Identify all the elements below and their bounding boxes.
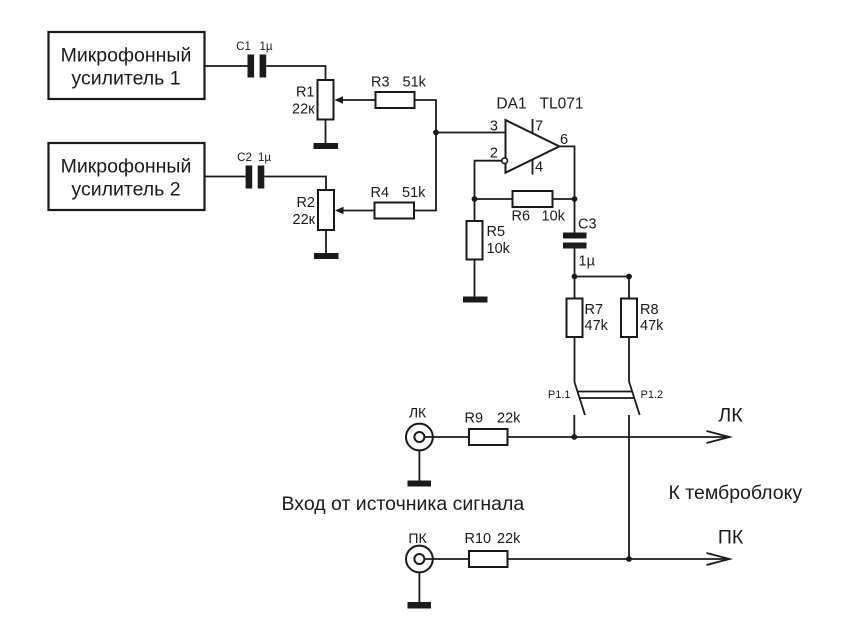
wire ЛК jack to R9 bbox=[424, 436, 469, 438]
svg-text:1µ: 1µ bbox=[579, 254, 596, 270]
op-amp U1 DA1 TL071 bbox=[490, 96, 584, 176]
svg-text:R10: R10 bbox=[465, 531, 492, 547]
wire R8 bottom to switch P1.2 bbox=[628, 337, 630, 382]
wire ПК jack to ground bbox=[418, 572, 420, 602]
svg-text:22k: 22k bbox=[497, 411, 521, 427]
svg-text:47k: 47k bbox=[640, 318, 664, 334]
wire R1 bottom to ground bbox=[325, 120, 327, 144]
capacitor C1 bbox=[236, 41, 273, 78]
svg-text:TL071: TL071 bbox=[540, 96, 584, 113]
svg-text:51k: 51k bbox=[402, 185, 426, 201]
svg-text:1µ: 1µ bbox=[259, 41, 272, 53]
node output junction bbox=[572, 196, 578, 202]
resistor R3 bbox=[371, 75, 427, 109]
wire R10 to ПК output line bbox=[508, 558, 728, 560]
svg-text:R2: R2 bbox=[296, 195, 315, 211]
resistor R5 bbox=[467, 221, 511, 260]
svg-text:22k: 22k bbox=[497, 531, 521, 547]
svg-text:2: 2 bbox=[490, 146, 498, 162]
svg-text:R4: R4 bbox=[371, 185, 390, 201]
svg-text:R6: R6 bbox=[512, 209, 531, 225]
connector ПК jack (RCA) bbox=[406, 530, 433, 572]
wire R9 to ЛК output line with node bbox=[508, 436, 728, 438]
wire R6 right to output node bbox=[553, 198, 575, 200]
svg-text:DA1: DA1 bbox=[496, 96, 526, 113]
svg-text:R1: R1 bbox=[296, 85, 315, 101]
resistor R10 bbox=[465, 531, 522, 567]
wire node down to R7 bbox=[574, 277, 576, 299]
switch mechanical coupling bbox=[578, 392, 635, 399]
svg-text:R7: R7 bbox=[585, 302, 604, 318]
svg-text:22к: 22к bbox=[292, 102, 315, 118]
svg-text:P1.2: P1.2 bbox=[641, 389, 664, 401]
svg-text:P1.1: P1.1 bbox=[548, 389, 571, 401]
resistor R6 bbox=[512, 191, 566, 225]
block: microphone amplifier 1 bbox=[49, 32, 205, 99]
wire node to R6 left bbox=[475, 198, 513, 200]
svg-text:R5: R5 bbox=[487, 224, 506, 240]
svg-text:51k: 51k bbox=[403, 75, 427, 91]
wire op-amp output pin 6 down to C3 bbox=[559, 146, 574, 232]
wire R7 bottom to switch P1.1 bbox=[574, 337, 576, 382]
wire node to R8 branch bbox=[575, 276, 630, 278]
block: microphone amplifier 2 bbox=[49, 143, 205, 210]
resistor R8 bbox=[621, 299, 664, 338]
svg-text:1µ: 1µ bbox=[258, 152, 271, 164]
arrow ПК output bbox=[707, 553, 730, 565]
wire pin 2 to feedback node bbox=[475, 161, 502, 199]
wire R1 wiper to R3 bbox=[341, 99, 376, 101]
svg-text:C3: C3 bbox=[578, 217, 597, 233]
potentiometer R1 bbox=[292, 80, 343, 120]
wire box2 to C2 bbox=[206, 176, 246, 178]
svg-text:22к: 22к bbox=[293, 212, 316, 228]
wire ЛК jack to ground bbox=[418, 450, 420, 481]
wire C2 to R2 top bbox=[264, 177, 326, 191]
svg-text:10k: 10k bbox=[542, 209, 566, 225]
svg-text:Вход от источника сигнала: Вход от источника сигнала bbox=[282, 493, 525, 515]
wire R2 wiper to R4 bbox=[342, 210, 375, 212]
node above R8 bbox=[626, 274, 632, 280]
svg-text:ПК: ПК bbox=[408, 530, 427, 546]
pin 4 stub bbox=[532, 160, 534, 175]
svg-text:C1: C1 bbox=[236, 41, 251, 53]
node below C3 bbox=[572, 274, 578, 280]
wire ПК jack to R10 bbox=[424, 558, 469, 560]
svg-text:ЛК: ЛК bbox=[409, 405, 427, 421]
capacitor C3 bbox=[563, 217, 597, 270]
wire feedback node down to R5 bbox=[474, 199, 476, 221]
wire switch P1.2 lower terminal down to PK line bbox=[628, 415, 630, 559]
node switch P1.2 to line bbox=[626, 556, 632, 562]
switch P1.2 bbox=[629, 382, 663, 416]
wire C1 to R1 top bbox=[266, 66, 325, 80]
ground below R1 bbox=[314, 143, 339, 149]
wire R5 bottom to ground bbox=[474, 260, 476, 297]
ground below ЛК jack bbox=[408, 481, 432, 487]
wire switch P1.1 lower terminal bbox=[573, 415, 575, 437]
svg-text:Микрофонный: Микрофонный bbox=[61, 156, 192, 178]
svg-text:ЛК: ЛК bbox=[718, 405, 743, 427]
ground below ПК jack bbox=[408, 602, 432, 609]
arrow ЛК output bbox=[707, 431, 730, 443]
svg-text:C2: C2 bbox=[237, 152, 252, 164]
wire junction to op-amp pin 3 bbox=[436, 132, 506, 134]
wire C3 bottom to node bbox=[574, 249, 576, 277]
ground below R2 bbox=[314, 253, 339, 259]
wire R2 bottom to ground bbox=[325, 230, 327, 253]
connector ЛК jack (RCA) bbox=[406, 405, 433, 451]
svg-text:4: 4 bbox=[535, 160, 543, 176]
wire R3 right to R4 right (vertical bus) bbox=[415, 100, 437, 211]
switch P1.1 bbox=[548, 382, 585, 416]
svg-text:47k: 47k bbox=[585, 318, 609, 334]
svg-text:10k: 10k bbox=[487, 241, 511, 257]
svg-text:усилитель 1: усилитель 1 bbox=[71, 68, 180, 90]
resistor R9 bbox=[465, 411, 522, 446]
node switch P1.1 to line bbox=[571, 434, 577, 440]
wire node down to R8 bbox=[628, 277, 630, 299]
ground below R5 bbox=[463, 297, 488, 303]
resistor R7 bbox=[567, 299, 609, 338]
svg-text:Микрофонный: Микрофонный bbox=[61, 45, 192, 67]
node input junction bbox=[433, 130, 439, 136]
svg-text:R9: R9 bbox=[465, 411, 484, 427]
pin 7 stub bbox=[532, 119, 534, 134]
inverting input bubble bbox=[502, 158, 508, 164]
svg-text:К темброблоку: К темброблоку bbox=[669, 482, 803, 504]
svg-text:3: 3 bbox=[490, 119, 498, 135]
svg-text:R8: R8 bbox=[640, 302, 659, 318]
node feedback left junction bbox=[472, 196, 478, 202]
resistor R4 bbox=[371, 185, 427, 219]
svg-text:R3: R3 bbox=[371, 75, 390, 91]
potentiometer R2 bbox=[293, 190, 344, 230]
svg-text:7: 7 bbox=[535, 119, 543, 135]
wire box1 to C1 bbox=[206, 65, 248, 67]
capacitor C2 bbox=[237, 152, 271, 189]
svg-text:ПК: ПК bbox=[718, 527, 744, 549]
svg-text:усилитель 2: усилитель 2 bbox=[71, 179, 180, 201]
